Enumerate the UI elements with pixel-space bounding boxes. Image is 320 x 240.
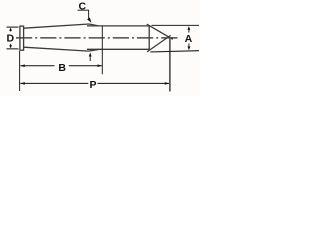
svg-text:B: B [58, 62, 66, 74]
A dim up arrow [188, 29, 190, 32]
part: body top edge [87, 25, 149, 27]
P right extension line [169, 39, 171, 92]
D dim down arrow [10, 44, 12, 47]
part: cone top edge extended [147, 24, 173, 39]
part: top chamfer to body [89, 24, 99, 26]
background [0, 0, 200, 96]
C leader [88, 10, 90, 18]
D extension line top [7, 26, 19, 28]
C underline [78, 9, 89, 11]
left extension line [19, 51, 21, 91]
centerline [16, 37, 179, 39]
shoulder vertical / B right extension line [101, 26, 103, 74]
part: left pilot rectangle [20, 26, 24, 50]
svg-text:P: P [89, 79, 96, 91]
svg-text:A: A [185, 33, 193, 45]
B dimension line left [20, 65, 54, 67]
P dimension line left [20, 82, 88, 84]
part: body bottom edge [87, 48, 149, 50]
C leader arrowhead [87, 18, 91, 23]
B dimension line right [69, 65, 102, 67]
A extension line bottom [150, 51, 199, 52]
A extension line top [152, 24, 200, 26]
P arrow left [20, 82, 25, 85]
part: bottom chamfer to body [89, 49, 100, 51]
B arrow left [20, 64, 25, 67]
part: taper top edge [24, 24, 89, 28]
D extension line bottom [7, 48, 19, 50]
P dimension line right [98, 82, 170, 84]
A dim down arrow [188, 44, 190, 47]
part: cone bottom edge extended [147, 35, 171, 52]
D dim up arrow [10, 28, 12, 31]
B arrow right [98, 64, 103, 67]
part: cone base [148, 26, 150, 51]
bottom tick arrow on step [89, 56, 91, 61]
P arrow right [165, 82, 170, 85]
part: taper bottom edge [24, 47, 89, 51]
svg-text:D: D [7, 33, 15, 45]
